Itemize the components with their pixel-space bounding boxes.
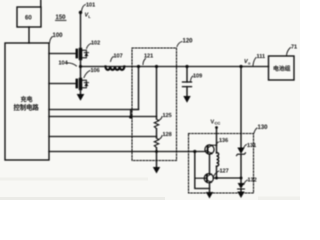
junction dot on line4 — [193, 150, 196, 153]
node VL (101) — [79, 3, 95, 20]
zener branch from Vo node — [240, 67, 242, 148]
svg-text:CC: CC — [215, 121, 221, 126]
Vcc supply — [211, 120, 221, 146]
label 121 with leader to wire — [143, 54, 153, 65]
label 131 with leader — [244, 143, 257, 149]
sense line 2 from control box to divider midpoint — [49, 136, 157, 138]
control line 4 to transistor stage — [49, 151, 204, 153]
block 60 (adapter box) — [17, 7, 41, 27]
wire Q136 collector stem to Q2 — [209, 154, 211, 174]
node at x156.5 on main wire — [155, 65, 158, 68]
svg-text:106: 106 — [91, 68, 100, 74]
zener diode 131 — [237, 148, 246, 156]
junction coil/rail — [215, 177, 218, 180]
label 120 with leader — [177, 39, 193, 47]
svg-text:125: 125 — [163, 113, 172, 119]
label 136 with leader — [216, 138, 228, 146]
wire Q136 emitter to coil — [216, 145, 218, 153]
label 128 with leader — [158, 132, 172, 140]
label 100 with leader to control box — [50, 33, 64, 43]
inductor L107 — [106, 67, 125, 70]
wire coil to bottom rail — [216, 166, 218, 178]
label 150 (figure number, underlined) — [56, 15, 67, 21]
output wire Q2 to zener branch — [213, 177, 241, 179]
junction rail/zener branch — [240, 177, 243, 180]
ground below R128 — [153, 167, 160, 174]
ground below Q105 — [77, 90, 85, 101]
svg-text:控制电路: 控制电路 — [14, 103, 40, 112]
svg-text:136: 136 — [219, 138, 228, 144]
resistor R125 — [154, 119, 158, 129]
sense line 0 from control box — [49, 109, 139, 111]
wire between resistors — [156, 129, 158, 138]
svg-text:109: 109 — [193, 74, 202, 80]
label 109 with leader — [191, 74, 203, 82]
mosfet Q105 (low side) — [49, 79, 89, 90]
svg-text:127: 127 — [220, 169, 229, 175]
wire VL to Q102 — [80, 13, 82, 49]
svg-text:71: 71 — [291, 45, 297, 51]
svg-text:107: 107 — [114, 54, 123, 60]
svg-text:128: 128 — [163, 132, 172, 138]
ground below diode 132 — [237, 192, 244, 199]
dashed box 130 — [189, 134, 254, 194]
wire R128 to ground — [156, 148, 158, 169]
svg-text:104: 104 — [59, 61, 69, 67]
node 104 (switch node) — [79, 65, 82, 68]
svg-text:100: 100 — [53, 33, 64, 39]
transistor Q136 — [205, 145, 217, 154]
label 125 with leader — [158, 113, 172, 121]
svg-text:60: 60 — [25, 16, 32, 22]
wire box60 to control box — [28, 27, 30, 43]
svg-text:电池组: 电池组 — [273, 65, 291, 73]
label 111 with leader — [253, 54, 265, 66]
label 130 with leader — [254, 125, 268, 133]
base loop wire from line4 node — [195, 152, 210, 189]
main output wire — [81, 66, 269, 68]
battery pack box 71 — [269, 56, 295, 80]
junction with line4 — [155, 150, 158, 153]
ground below Q2 — [206, 183, 213, 199]
wire Q102 to switch node — [80, 60, 82, 79]
junction dot on sense line — [129, 115, 132, 118]
wire from box60 top to image edge — [40, 0, 42, 7]
svg-text:111: 111 — [257, 54, 266, 60]
svg-text:120: 120 — [183, 39, 194, 45]
inductor 127 (vertical coil) — [217, 153, 219, 167]
node Vo — [239, 65, 242, 68]
resistor R128 — [154, 138, 158, 148]
transistor Q2 — [195, 174, 213, 183]
label 106 with leader — [84, 68, 100, 78]
mosfet Q102 (high side) — [49, 49, 89, 60]
divider chain from output node — [156, 67, 158, 120]
svg-text:充电: 充电 — [21, 96, 33, 104]
svg-text:101: 101 — [86, 3, 95, 9]
diode 132 — [238, 183, 245, 192]
svg-text:131: 131 — [247, 143, 256, 149]
dashed box 120 — [132, 48, 177, 161]
wire zener to rail junction — [240, 155, 242, 184]
node at x138.5 on main wire — [137, 65, 140, 68]
label 127 with leader — [214, 169, 229, 177]
label 104 with leader — [59, 61, 77, 67]
scan smudge bottom-left — [0, 178, 148, 181]
label 71 with leader — [287, 45, 298, 56]
feedback loop wire from node down to control box line — [131, 67, 139, 118]
svg-text:132: 132 — [248, 178, 257, 184]
svg-text:130: 130 — [258, 125, 269, 131]
svg-text:102: 102 — [91, 41, 100, 47]
label 132 with leader — [244, 178, 257, 185]
sense line 1 from control box to R125 top — [49, 116, 157, 118]
output capacitor C109 — [183, 67, 192, 103]
charge control circuit box U100 — [5, 43, 49, 160]
label 102 with leader — [87, 41, 101, 49]
label 107 with leader — [111, 54, 123, 62]
